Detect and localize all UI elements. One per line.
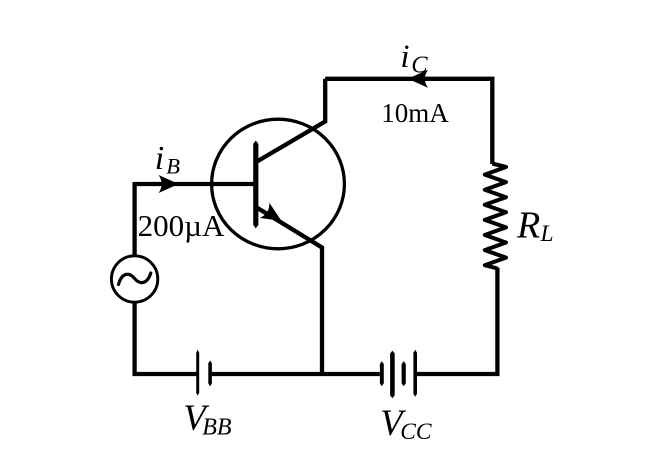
svg-text:L: L [540, 221, 554, 247]
arrow iC (pointing left on top wire) [408, 70, 428, 88]
wire: bottom middle from VBB to VCC battery (through emitter junction) [212, 372, 380, 376]
VCC short plate 3 [402, 361, 406, 386]
svg-text:200µA: 200µA [138, 208, 225, 243]
wire: emitter vertical down to bottom wire [320, 246, 324, 374]
svg-text:BB: BB [202, 415, 232, 441]
AC source VS [111, 256, 157, 302]
wire base-left: left vertical from base corner down to AC source top [132, 182, 136, 257]
svg-text:10mA: 10mA [381, 98, 449, 128]
VCC long plate 2 [390, 351, 395, 399]
battery VCC [380, 350, 417, 398]
svg-text:C: C [411, 51, 428, 78]
resistor RL [485, 164, 506, 269]
transistor body circle [212, 119, 345, 249]
label VCC [380, 402, 432, 445]
wire: bottom right from VCC to right corner, up to resistor bottom [417, 268, 497, 375]
label VBB [183, 398, 232, 440]
emitter arrowhead [260, 203, 282, 221]
label RL [516, 204, 554, 247]
base bar [253, 141, 258, 229]
battery VBB [196, 350, 212, 396]
svg-text:R: R [516, 204, 540, 246]
label iC [400, 39, 428, 78]
wire: left vertical below AC source + bottom-left horizontal to VBB battery [135, 302, 197, 375]
VBB long plate (+) [196, 350, 199, 396]
svg-text:i: i [155, 140, 164, 177]
VCC long plate 4 [413, 350, 417, 397]
svg-text:B: B [166, 153, 180, 178]
label iB [155, 140, 180, 178]
VBB short plate (-) [208, 360, 212, 386]
arrow iB (pointing right on base wire) [159, 175, 179, 193]
svg-text:i: i [400, 39, 409, 75]
VCC short plate 1 [380, 361, 384, 386]
svg-text:CC: CC [400, 419, 432, 445]
wire: base horizontal from left corner to base bar [135, 182, 258, 186]
wire: right vertical above resistor + top horizontal to collector corner [325, 79, 492, 164]
collector lead: diagonal from bar, then vertical up to top wire [255, 79, 325, 163]
transistor Q1 [212, 79, 345, 249]
emitter lead: diagonal from bar to bend [255, 207, 322, 248]
